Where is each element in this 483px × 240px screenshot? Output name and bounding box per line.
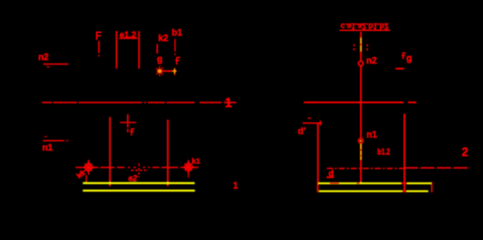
svg-text:d′: d′ [298, 126, 307, 137]
svg-text:n1: n1 [42, 143, 53, 153]
svg-text:b1: b1 [172, 28, 183, 38]
svg-text:b1.2: b1.2 [377, 148, 390, 157]
svg-text:1: 1 [225, 95, 232, 110]
svg-text:k2: k2 [158, 33, 168, 43]
svg-text:n2: n2 [366, 55, 377, 65]
svg-text:2: 2 [462, 147, 468, 159]
svg-text:e2: e2 [128, 174, 137, 183]
svg-text:n2: n2 [38, 52, 49, 62]
svg-text:k1: k1 [192, 156, 200, 165]
svg-text:g: g [406, 53, 412, 64]
svg-text:g: g [157, 54, 163, 64]
svg-text:n1: n1 [367, 130, 378, 140]
svg-text:1: 1 [233, 181, 238, 191]
